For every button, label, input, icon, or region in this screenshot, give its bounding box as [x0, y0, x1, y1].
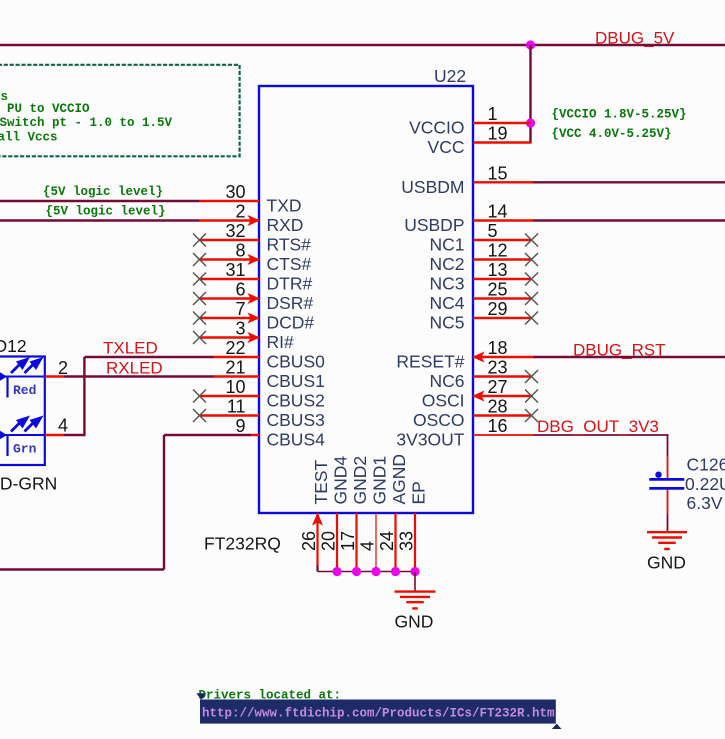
pin 18 RESET# of U22 (right)	[396, 338, 725, 372]
node DBUG_5V junction	[526, 40, 535, 49]
selection handle right	[552, 724, 562, 729]
pin 17 GND2 of U22 (bottom)	[338, 456, 370, 572]
pin 25 NC4 of U22 (right)	[429, 280, 538, 314]
pin 11 CBUS3 of U22 (left)	[193, 397, 325, 431]
pin 30 TXD of U22 (left)	[199, 182, 302, 216]
pin 23 NC6 of U22 (right)	[429, 358, 538, 392]
pin 4 GND1 of U22 (bottom)	[358, 456, 390, 572]
wire TXLED horizontal to CBUS0	[84, 356, 213, 358]
svg-text:PU to VCCIO: PU to VCCIO	[7, 102, 90, 116]
selection handle left	[196, 693, 206, 700]
pin 9 CBUS4 of U22 (left)	[235, 416, 325, 450]
pin 16 3V3OUT of U22 (right)	[396, 416, 667, 450]
svg-text:VCC: VCC	[428, 137, 465, 157]
svg-text:Grn: Grn	[13, 442, 37, 457]
svg-text:29: 29	[488, 299, 508, 319]
svg-text:11: 11	[227, 397, 246, 417]
svg-text:3: 3	[235, 319, 245, 339]
svg-text:DBG_OUT_3V3: DBG_OUT_3V3	[537, 417, 659, 436]
pin 3 RI# of U22 (left)	[193, 319, 294, 353]
pin 8 CTS# of U22 (left)	[193, 241, 312, 275]
svg-text:30: 30	[225, 182, 245, 202]
svg-text:22: 22	[225, 338, 245, 358]
svg-text:20: 20	[319, 531, 339, 551]
svg-text:{VCC 4.0V-5.25V}: {VCC 4.0V-5.25V}	[552, 127, 672, 141]
svg-text:3V3OUT: 3V3OUT	[396, 430, 464, 450]
pin 26 TEST of U22 (bottom)	[299, 459, 331, 571]
pin 14 USBDP of U22 (right)	[404, 202, 725, 236]
svg-text:4: 4	[58, 416, 68, 436]
svg-text:EP: EP	[409, 481, 429, 504]
svg-text:GND: GND	[647, 553, 686, 573]
svg-text:OSCI: OSCI	[422, 391, 465, 411]
svg-text:FT232RQ: FT232RQ	[204, 534, 281, 554]
svg-text:18: 18	[488, 338, 508, 358]
pin 21 CBUS1 of U22 (left)	[213, 358, 325, 392]
svg-text:GND4: GND4	[331, 456, 351, 505]
ground GND under U22	[395, 592, 436, 609]
svg-text:{5V logic level}: {5V logic level}	[46, 204, 166, 218]
LED D12 body box	[0, 357, 45, 466]
pin 6 DSR# of U22 (left)	[193, 280, 313, 314]
svg-text:DTR#: DTR#	[267, 274, 313, 294]
wire vertical from DBUG_5V down to VCCIO/VCC	[529, 45, 531, 144]
svg-text:TXD: TXD	[267, 196, 302, 216]
wire TXLED vertical segment	[83, 357, 85, 435]
svg-text:GND: GND	[395, 612, 434, 632]
svg-text:23: 23	[488, 358, 508, 378]
node junction on ground rail x=337	[332, 567, 341, 576]
svg-text:GND2: GND2	[350, 456, 370, 505]
wire RXLED from D12 pin2 to CBUS1	[64, 375, 214, 377]
pin 32 RTS# of U22 (left)	[193, 221, 311, 255]
svg-text:NC2: NC2	[429, 254, 464, 274]
svg-text:CBUS4: CBUS4	[267, 430, 326, 450]
svg-text:{5V logic level}: {5V logic level}	[43, 185, 163, 199]
svg-text:25: 25	[488, 280, 508, 300]
node junction at VCCIO pin	[526, 118, 535, 127]
svg-text:VCCIO: VCCIO	[409, 118, 464, 138]
svg-text:D12: D12	[0, 336, 27, 356]
node junction on ground rail x=356.5	[352, 567, 361, 576]
svg-text:USBDP: USBDP	[404, 215, 464, 235]
svg-text:RXD: RXD	[267, 215, 304, 235]
svg-text:33: 33	[397, 531, 417, 551]
pin 27 OSCI of U22 (right)	[422, 377, 538, 411]
svg-text:0.22UF: 0.22UF	[685, 474, 725, 494]
svg-text:DBUG_5V: DBUG_5V	[595, 29, 675, 48]
svg-text:8: 8	[235, 241, 245, 261]
svg-text:NC6: NC6	[429, 371, 464, 391]
note box (green dashed)	[0, 65, 240, 157]
svg-text:17: 17	[338, 531, 358, 551]
pin 28 OSCO of U22 (right)	[413, 397, 538, 431]
svg-text:CBUS2: CBUS2	[267, 391, 325, 411]
svg-text:13: 13	[488, 260, 508, 280]
svg-text:CBUS1: CBUS1	[267, 371, 325, 391]
svg-text:NC5: NC5	[429, 313, 464, 333]
svg-text:RI#: RI#	[267, 332, 295, 352]
pin 22 CBUS0 of U22 (left)	[213, 338, 325, 372]
pin 19 VCC of U22 (right)	[428, 124, 531, 158]
svg-text:TXLED: TXLED	[103, 339, 158, 358]
pin 24 AGND of U22 (bottom)	[377, 454, 409, 572]
URL highlight bar	[200, 700, 556, 724]
node junction on ground rail x=376	[371, 567, 380, 576]
pin 4 stub of D12	[45, 416, 68, 436]
svg-text:CBUS0: CBUS0	[267, 352, 326, 372]
LED D12 green element	[0, 416, 45, 457]
LED D12 red element	[0, 357, 45, 398]
pin 15 USBDM of U22 (right)	[401, 163, 725, 197]
wire CBUS4 to left edge	[0, 435, 251, 570]
svg-text:31: 31	[225, 260, 245, 280]
pin 10 CBUS2 of U22 (left)	[193, 377, 325, 411]
pin 20 GND4 of U22 (bottom)	[319, 456, 351, 572]
svg-text:TEST: TEST	[311, 459, 331, 504]
wire TXD net from left edge	[0, 200, 199, 202]
svg-text:RESET#: RESET#	[396, 352, 464, 372]
svg-text:4: 4	[358, 541, 378, 551]
svg-text:NC1: NC1	[429, 235, 464, 255]
wire from D12 pin4 to vertical	[64, 434, 86, 436]
node junction on ground rail x=395.5	[391, 567, 400, 576]
wire EP to ground symbol	[414, 572, 416, 592]
svg-text:DCD#: DCD#	[267, 313, 315, 333]
svg-text:1: 1	[488, 104, 498, 124]
svg-text:RXLED: RXLED	[106, 359, 163, 378]
svg-text:DSR#: DSR#	[267, 293, 314, 313]
svg-text:NC3: NC3	[429, 274, 464, 294]
pin 31 DTR# of U22 (left)	[193, 260, 312, 294]
capacitor C126	[649, 472, 684, 489]
svg-text:2: 2	[235, 202, 245, 222]
pin 12 NC2 of U22 (right)	[429, 241, 538, 275]
svg-text:6: 6	[235, 280, 245, 300]
node junction on ground rail x=415	[410, 567, 419, 576]
svg-text:21: 21	[225, 358, 245, 378]
svg-text:AGND: AGND	[389, 454, 409, 505]
pin 1 VCCIO of U22 (right)	[409, 104, 530, 138]
pin 2 stub of D12	[45, 358, 68, 378]
svg-text:Red: Red	[13, 383, 36, 398]
svg-text:14: 14	[488, 202, 508, 222]
wire DBG_OUT_3V3 vertical to C126	[667, 434, 669, 478]
wire ground rail under U22	[318, 571, 416, 573]
svg-text:CBUS3: CBUS3	[267, 410, 325, 430]
svg-text:26: 26	[299, 531, 319, 551]
pin 5 NC1 of U22 (right)	[429, 221, 538, 255]
svg-text:{VCCIO 1.8V-5.25V}: {VCCIO 1.8V-5.25V}	[552, 107, 687, 121]
svg-text:C126: C126	[687, 455, 725, 475]
pin 7 DCD# of U22 (left)	[193, 299, 314, 333]
svg-text:GND1: GND1	[370, 456, 390, 505]
svg-text:28: 28	[488, 397, 508, 417]
svg-text:5: 5	[488, 221, 498, 241]
pin 2 RXD of U22 (left)	[199, 202, 303, 236]
svg-text:16: 16	[488, 416, 508, 436]
ground GND under C126	[647, 532, 687, 549]
pin 13 NC3 of U22 (right)	[429, 260, 538, 294]
svg-text:19: 19	[488, 124, 508, 144]
wire C126 to ground	[667, 490, 669, 532]
op-amp U22 body (FT232RQ IC outline)	[259, 86, 473, 513]
svg-text:DBUG_RST: DBUG_RST	[573, 341, 666, 360]
svg-text:27: 27	[488, 377, 508, 397]
svg-text:7: 7	[235, 299, 245, 319]
svg-text:10: 10	[225, 377, 245, 397]
pin 29 NC5 of U22 (right)	[429, 299, 538, 333]
svg-text:24: 24	[377, 531, 397, 551]
svg-text:32: 32	[225, 221, 245, 241]
pin 33 EP of U22 (bottom)	[397, 481, 429, 571]
svg-text:15: 15	[488, 163, 508, 183]
svg-text:U22: U22	[434, 66, 466, 86]
svg-text:LED-GRN: LED-GRN	[0, 474, 57, 494]
wire DBUG_5V horizontal net across top	[0, 44, 725, 46]
svg-text:CTS#: CTS#	[267, 254, 312, 274]
svg-text:USBDM: USBDM	[401, 177, 464, 197]
svg-text:RTS#: RTS#	[267, 235, 312, 255]
svg-text:9: 9	[235, 416, 245, 436]
svg-text:NC4: NC4	[429, 293, 464, 313]
svg-text:http://www.ftdichip.com/Produc: http://www.ftdichip.com/Products/ICs/FT2…	[202, 707, 555, 721]
svg-text:Switch pt - 1.0 to 1.5V: Switch pt - 1.0 to 1.5V	[0, 116, 173, 130]
svg-text:all Vccs: all Vccs	[0, 131, 58, 145]
svg-text:2: 2	[58, 358, 68, 378]
svg-text:6.3V: 6.3V	[687, 493, 723, 513]
wire RXD net from left edge	[0, 219, 199, 221]
svg-text:OSCO: OSCO	[413, 410, 465, 430]
svg-text:12: 12	[488, 241, 508, 261]
